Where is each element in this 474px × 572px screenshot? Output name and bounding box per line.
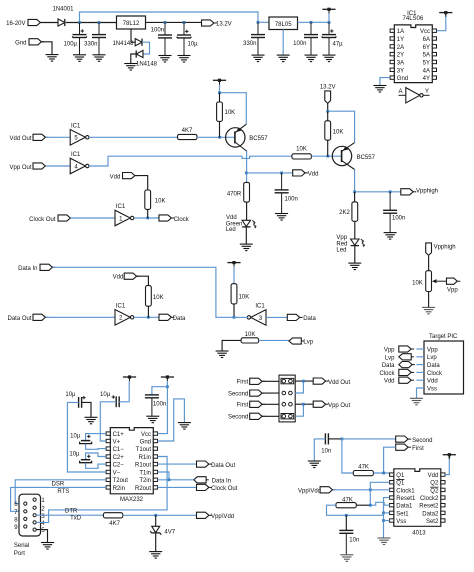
svg-text:Clock: Clock: [174, 217, 190, 223]
label 10n b: [349, 537, 359, 543]
junction datain pins: [168, 478, 171, 481]
svg-text:T2out: T2out: [113, 478, 129, 484]
wire 2K2 top: [354, 192, 356, 202]
label 10K lvp: [245, 332, 256, 338]
svg-text:IC1: IC1: [255, 304, 265, 310]
wire Data In run: [53, 267, 234, 317]
wire lvp right: [259, 339, 289, 341]
capacitor C7 47u: [322, 22, 336, 55]
svg-text:Data Out: Data Out: [7, 316, 31, 322]
junction vcc 100n: [166, 385, 169, 388]
wire R2 lower lead: [219, 121, 221, 137]
wire 10n to 47K: [342, 439, 353, 473]
capacitor C1 100u: [73, 23, 87, 55]
wire VppOut to IC1d: [46, 165, 71, 167]
IC U5 pin labels: [396, 473, 439, 525]
connector Clock: [159, 215, 174, 221]
label 10K pot: [412, 280, 423, 286]
wire VddOut to IC1e: [46, 136, 71, 138]
junction zener: [154, 514, 157, 517]
label Second 2: [228, 415, 248, 421]
power stub 5V: [322, 8, 335, 14]
label Vpphigh: [416, 189, 438, 195]
svg-text:Gnd: Gnd: [397, 76, 408, 82]
label 4K7 b: [109, 521, 120, 527]
potentiometer 10K: [426, 271, 432, 292]
label 10K mid: [296, 147, 307, 153]
ground Vss pic: [410, 398, 423, 405]
LED D4 Vdd Green: [242, 220, 256, 228]
svg-text:2K2: 2K2: [339, 210, 350, 216]
svg-text:16-20V: 16-20V: [6, 21, 25, 27]
resistor R6 10K: [146, 286, 152, 307]
connector Data pic: [399, 362, 415, 368]
svg-text:Vpp Out: Vpp Out: [328, 403, 350, 409]
svg-text:IC1: IC1: [116, 204, 126, 210]
label 100n b: [293, 41, 306, 47]
ground C7: [323, 55, 336, 62]
svg-text:10µ: 10µ: [100, 392, 111, 398]
wire 16-20V to D1: [41, 22, 58, 24]
wire gate4 out: [89, 156, 108, 166]
capacitor C4 10u: [177, 22, 191, 55]
connector VppVdd b: [320, 487, 335, 493]
svg-text:First: First: [412, 446, 424, 452]
wire reset set vss: [384, 498, 390, 538]
ground C13: [85, 417, 98, 424]
label 2K2: [339, 210, 350, 216]
ground 1N4148: [124, 64, 137, 71]
svg-text:Second: Second: [228, 392, 248, 398]
svg-text:BC557: BC557: [357, 155, 376, 161]
svg-text:Port: Port: [14, 551, 25, 557]
junction data node b: [233, 316, 236, 319]
wire gate3 out: [234, 316, 248, 318]
connector Data b: [287, 314, 302, 320]
svg-text:6Y: 6Y: [423, 45, 430, 51]
junction C4 10u: [183, 21, 186, 24]
wire c17 left: [314, 439, 325, 461]
ground C12: [146, 416, 159, 423]
ground 4013: [378, 538, 391, 545]
IC Target PIC body: [424, 341, 464, 394]
svg-text:4V7: 4V7: [164, 529, 175, 535]
resistor R9 10K: [145, 190, 151, 209]
label Vdd pic: [384, 379, 395, 385]
label Data a: [173, 316, 186, 322]
label First 1: [237, 380, 249, 386]
power stub 4013: [443, 453, 456, 459]
svg-text:Vdd Out: Vdd Out: [328, 380, 350, 386]
connector First 2: [250, 401, 265, 407]
ground max gnd pin: [178, 423, 191, 430]
ground 74LS06: [373, 86, 386, 93]
junction C2 330n: [98, 21, 101, 24]
wire vpphigh to pot: [428, 256, 430, 271]
svg-text:Serial: Serial: [14, 543, 29, 549]
wire R2out to ClockOut: [158, 486, 197, 488]
label Clock pic: [379, 371, 395, 377]
serial port pin numbers: [14, 498, 45, 534]
wire 13.2V to emitter: [328, 111, 355, 142]
wire 13.2V lead: [327, 103, 329, 111]
wire jumper left 1: [262, 380, 279, 382]
svg-text:Vpp\Vdd: Vpp\Vdd: [211, 514, 234, 520]
svg-text:Clock Out: Clock Out: [29, 217, 56, 223]
svg-text:Set1: Set1: [396, 511, 409, 517]
label Port: [14, 551, 25, 557]
junction jumper vdd: [302, 380, 305, 383]
label 10u c2: [100, 392, 111, 398]
ground C2: [93, 55, 106, 62]
wire 47K2 right: [356, 504, 370, 506]
connector First b: [396, 444, 411, 450]
connector Vpp pic: [399, 346, 414, 352]
svg-text:Set2: Set2: [426, 519, 439, 525]
connector Data In: [40, 264, 55, 270]
wire lvp left: [222, 340, 241, 350]
svg-text:100µ: 100µ: [64, 41, 78, 47]
wires pic tags: [416, 349, 424, 380]
wire stub to rail: [328, 14, 330, 23]
transistor Q1 BC557: [226, 124, 247, 151]
jumper block body: [279, 375, 295, 422]
ground LED green: [240, 244, 253, 251]
svg-text:Lvp: Lvp: [303, 340, 313, 346]
ground zener: [149, 552, 162, 559]
wire c3 top: [86, 434, 106, 441]
zener D6 4V7: [150, 526, 161, 534]
svg-text:Q2: Q2: [430, 481, 439, 487]
connector Vdd pic: [399, 377, 414, 383]
svg-text:Vpphigh: Vpphigh: [434, 245, 456, 251]
svg-text:3A: 3A: [397, 60, 404, 66]
svg-text:4Y: 4Y: [423, 76, 430, 82]
connector Second 1: [250, 390, 265, 396]
label Lvp: [303, 340, 313, 346]
svg-text:Vdd: Vdd: [110, 174, 121, 180]
svg-text:100n: 100n: [151, 27, 164, 33]
diode D3 1N4148: [136, 50, 143, 57]
svg-text:Q1: Q1: [396, 481, 405, 487]
wire zener lead: [155, 515, 157, 526]
capacitor C11 100n: [275, 173, 289, 213]
svg-text:4K7: 4K7: [182, 128, 193, 134]
svg-text:Vdd: Vdd: [384, 379, 395, 385]
svg-text:C1+: C1+: [113, 432, 125, 438]
label 10u c3: [70, 433, 81, 439]
svg-text:100n: 100n: [285, 197, 298, 203]
label Data Out c: [211, 463, 235, 469]
svg-text:Data: Data: [303, 316, 316, 322]
regulator U2 78L12: [117, 16, 146, 29]
junction 100n vdd: [280, 172, 283, 175]
svg-text:1N4001: 1N4001: [52, 7, 74, 13]
Target PIC pin labels: [427, 347, 443, 392]
svg-text:4A: 4A: [423, 68, 430, 74]
svg-text:5Y: 5Y: [423, 60, 430, 66]
svg-text:IC1: IC1: [71, 152, 81, 158]
svg-text:78L12: 78L12: [123, 21, 140, 27]
wire R1out to DataOut: [158, 463, 197, 465]
wire pot to gnd: [428, 292, 430, 308]
connector Vdd Out b: [313, 378, 328, 384]
svg-text:TxD: TxD: [70, 515, 82, 521]
resistor R3 10K: [292, 154, 312, 159]
svg-text:Vdd: Vdd: [428, 473, 439, 479]
ground C5: [252, 55, 265, 62]
label 47K a: [358, 464, 369, 470]
svg-text:R2out: R2out: [135, 486, 151, 492]
svg-text:Vpp: Vpp: [447, 287, 458, 293]
wire LED2 to gnd: [354, 246, 356, 263]
svg-text:T2in: T2in: [139, 478, 151, 484]
wire set1 stub: [384, 512, 390, 514]
connector Lvp pic: [399, 354, 414, 360]
label 13.2V: [216, 22, 232, 28]
label 1N4001: [52, 7, 74, 13]
label 4013: [412, 531, 426, 537]
IC U4 pins: [106, 432, 157, 489]
capacitor C13 10u: [79, 396, 86, 408]
wire R6 lower: [147, 306, 149, 317]
svg-text:47K: 47K: [358, 464, 369, 470]
ground input: [46, 55, 59, 62]
svg-text:DTR: DTR: [65, 508, 78, 514]
wire R3 to Q2 base: [311, 155, 341, 157]
wire Q1bar to Data1: [370, 482, 389, 505]
wire 10n b lead: [345, 515, 347, 530]
junction D1/C1: [78, 21, 81, 24]
IC U4 MAX232 body: [110, 428, 153, 494]
junction vdd node: [245, 172, 248, 175]
wire 4K7 to base: [197, 136, 235, 138]
svg-text:10µ: 10µ: [188, 42, 199, 48]
jumper cap 2: [281, 414, 294, 419]
svg-text:10µ: 10µ: [69, 452, 80, 458]
svg-text:First: First: [237, 403, 249, 409]
label Vpp wiper: [447, 287, 458, 293]
ground C11: [275, 214, 288, 221]
svg-text:1N4148: 1N4148: [136, 62, 158, 68]
svg-text:V−: V−: [113, 470, 121, 476]
ground serial: [41, 543, 54, 550]
connector Vdd pullup c: [123, 173, 138, 179]
wire 47K2 left: [327, 505, 384, 515]
svg-text:Led: Led: [226, 227, 236, 233]
label Led led: [226, 227, 236, 233]
wire D2 to D3: [142, 42, 150, 54]
pot wiper arrow: [432, 279, 447, 283]
capacitor C10 100n: [383, 192, 397, 233]
label Gnd: [15, 41, 26, 47]
junction clock1: [369, 488, 372, 491]
wire First to Q1: [384, 447, 396, 473]
label Data In: [18, 266, 37, 272]
resistor R7 10K: [231, 284, 237, 304]
svg-text:Vpp: Vpp: [336, 235, 347, 241]
connector 13.2V supply: [325, 91, 331, 104]
wire 4013 Vdd: [445, 459, 449, 475]
inverter IC1 gate 5: [70, 124, 89, 146]
svg-text:330n: 330n: [243, 41, 256, 47]
svg-text:4013: 4013: [412, 531, 426, 537]
connector Lvp: [289, 338, 304, 344]
svg-text:78L05: 78L05: [275, 22, 292, 28]
wire pin5 gnd: [36, 530, 47, 543]
wire c4 top: [86, 453, 106, 459]
connector Clock Out: [58, 215, 73, 221]
IC U1 74LS06 body: [394, 25, 432, 83]
wire TxD: [36, 514, 103, 516]
serial port pins: [24, 498, 37, 531]
svg-text:Vdd: Vdd: [226, 215, 237, 221]
wire to 78L05: [258, 21, 269, 23]
label Clock Out: [29, 217, 56, 223]
ground C18: [340, 555, 353, 562]
wire vdd pullup a: [137, 276, 149, 285]
connector Clock Out b: [197, 484, 212, 490]
inverter legend: [399, 88, 430, 103]
svg-text:10K: 10K: [412, 280, 423, 286]
capacitor C12 100n: [145, 395, 159, 416]
ground C17: [308, 461, 321, 468]
label MAX232: [120, 497, 144, 503]
junction data1: [369, 504, 372, 507]
IC U1 pins: [390, 29, 436, 79]
label Clock Out b: [211, 486, 238, 492]
svg-text:C2−: C2−: [113, 463, 125, 469]
wire gate3 in: [266, 316, 287, 318]
resistor R4 10K: [325, 121, 331, 140]
svg-text:DSR: DSR: [52, 481, 65, 487]
label 10u: [188, 42, 199, 48]
wire VppVdd to Clock1: [333, 489, 390, 491]
power stub data pullup: [227, 261, 240, 267]
junction jumper vpp: [302, 403, 305, 406]
label IC1: [407, 11, 417, 17]
wire jumper left 2: [262, 392, 279, 394]
wire to Vpphigh tag: [355, 191, 401, 193]
svg-text:1A: 1A: [397, 29, 404, 35]
wire R7 lower: [233, 304, 235, 317]
svg-text:10n: 10n: [321, 449, 331, 455]
svg-text:Data: Data: [173, 316, 186, 322]
wire R2 leads: [219, 93, 221, 102]
svg-text:Vdd: Vdd: [308, 172, 319, 178]
connector Vdd a: [293, 170, 308, 176]
svg-text:Gnd: Gnd: [140, 439, 151, 445]
capacitor C15 10u: [80, 435, 92, 444]
capacitor C16 10u: [80, 455, 92, 463]
svg-text:Data Out: Data Out: [211, 463, 235, 469]
svg-text:IC1: IC1: [71, 124, 81, 130]
connector Vpphigh in: [426, 243, 432, 256]
svg-text:Second: Second: [228, 415, 248, 421]
svg-text:First: First: [237, 380, 249, 386]
label Y: [425, 89, 429, 95]
junction set1: [382, 512, 385, 515]
ground pot: [422, 307, 435, 314]
wire vss stub: [384, 520, 390, 522]
svg-text:1Y: 1Y: [397, 37, 404, 43]
svg-text:RTS: RTS: [57, 489, 69, 495]
connector Vdd Out: [33, 134, 48, 140]
resistor R11 4K7: [103, 513, 122, 518]
svg-text:Vcc: Vcc: [141, 432, 151, 438]
svg-text:10K: 10K: [225, 110, 236, 116]
label Vpp led1: [336, 235, 347, 241]
IC U5 pins: [390, 473, 445, 522]
junction vss: [382, 519, 385, 522]
wire Gnd 74LS06: [380, 78, 390, 86]
label Lvp pic: [385, 355, 395, 361]
wire 47K to Q1 pin: [373, 472, 389, 474]
svg-text:Vpp Out: Vpp Out: [9, 165, 31, 171]
label A: [398, 89, 402, 95]
svg-text:10K: 10K: [296, 147, 307, 153]
wire c13 left: [67, 402, 106, 472]
wire rail 16V: [80, 12, 259, 23]
svg-text:13.2V: 13.2V: [320, 84, 336, 90]
svg-text:Clock: Clock: [427, 371, 443, 377]
label DTR: [65, 508, 78, 514]
capacitor C2 330n: [92, 23, 106, 55]
wire RTS: [11, 487, 106, 511]
svg-text:Target PIC: Target PIC: [429, 334, 458, 340]
label 100n vdd: [285, 197, 298, 203]
label BC557 Q2: [357, 155, 376, 161]
junction 100n vpp: [389, 190, 392, 193]
label First 2: [237, 403, 249, 409]
wire R4 top lead: [327, 111, 329, 121]
connector Data a: [159, 314, 174, 320]
label Vpp Out b: [328, 403, 350, 409]
connector Data Out: [33, 314, 48, 320]
label 470R: [227, 192, 242, 198]
label Serial: [14, 543, 29, 549]
label 47u: [333, 41, 344, 47]
connector VppVdd a: [197, 512, 212, 518]
label Vdd a: [308, 172, 319, 178]
junction 10K top: [218, 91, 221, 94]
svg-text:Data2: Data2: [422, 511, 439, 517]
resistor R1 4K7: [178, 134, 198, 139]
svg-text:100n: 100n: [293, 41, 306, 47]
label 4V7: [164, 529, 175, 535]
svg-text:C1−: C1−: [113, 447, 125, 453]
wire jumper row3: [295, 403, 313, 405]
wire 78L12 gnd pin: [131, 29, 135, 42]
label 10u c4: [69, 452, 80, 458]
connector Vpphigh out: [401, 189, 416, 195]
wire vdd pullup c: [135, 176, 148, 190]
wire jumper row4: [295, 404, 303, 416]
label Vpp Out: [9, 165, 31, 171]
resistor R8 10K: [241, 338, 259, 343]
label 10K Q2: [333, 129, 344, 135]
junction C7 47u: [328, 21, 331, 24]
junction Q1 node: [382, 472, 385, 475]
diode D2 1N4148: [135, 39, 142, 46]
svg-text:Vss: Vss: [427, 386, 437, 392]
label 1N4148 b: [136, 62, 158, 68]
svg-text:10K: 10K: [153, 295, 164, 301]
junction clock node: [146, 217, 149, 220]
svg-text:Vpp: Vpp: [427, 347, 438, 353]
connector Gnd: [29, 39, 44, 45]
svg-text:Vdd: Vdd: [427, 379, 438, 385]
